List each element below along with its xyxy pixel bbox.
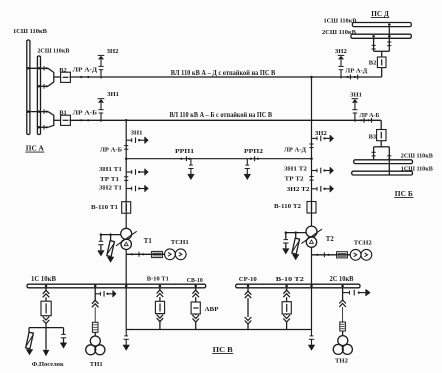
svg-text:ПС А: ПС А (26, 145, 45, 153)
svg-text:ТН1: ТН1 (90, 361, 103, 368)
svg-text:ЗН1 Т1: ЗН1 Т1 (99, 166, 122, 173)
svg-text:Т2: Т2 (326, 236, 335, 243)
svg-text:Т1: Т1 (144, 238, 153, 245)
svg-text:2С 10кВ: 2С 10кВ (330, 276, 354, 283)
svg-text:РРП2: РРП2 (244, 148, 264, 155)
svg-text:1С 10кВ: 1С 10кВ (31, 276, 56, 283)
svg-text:АВР: АВР (205, 306, 219, 313)
svg-text:ВЛ 110 кВ А – Д с отпайкой на: ВЛ 110 кВ А – Д с отпайкой на ПС В (171, 70, 276, 77)
svg-text:ЗН1: ЗН1 (107, 91, 119, 98)
svg-text:ЛР А-Б: ЛР А-Б (360, 112, 380, 119)
svg-text:СВ-10: СВ-10 (187, 277, 204, 284)
svg-text:ВЛ 110 кВ А – Б с отпайкой на: ВЛ 110 кВ А – Б с отпайкой на ПС В (170, 112, 273, 119)
svg-text:В3: В3 (369, 133, 376, 140)
svg-text:ЗН2 Т1: ЗН2 Т1 (99, 184, 122, 191)
svg-text:В-10 Т2: В-10 Т2 (276, 276, 305, 283)
svg-text:В2: В2 (59, 67, 66, 74)
svg-text:В-110 Т1: В-110 Т1 (91, 204, 118, 211)
svg-text:ТР Т1: ТР Т1 (100, 176, 119, 183)
svg-text:В1: В1 (59, 110, 66, 117)
svg-text:ЗН2 Т2: ЗН2 Т2 (287, 186, 311, 193)
svg-text:ЗН1: ЗН1 (350, 91, 362, 98)
svg-text:ТР Т2: ТР Т2 (285, 176, 305, 183)
svg-text:ПС Б: ПС Б (395, 190, 413, 198)
svg-text:ЗН2: ЗН2 (335, 48, 348, 55)
svg-text:СР-10: СР-10 (239, 276, 258, 283)
svg-text:ЛР А-Д: ЛР А-Д (284, 146, 306, 153)
svg-text:2СШ 110кВ: 2СШ 110кВ (401, 152, 434, 159)
svg-text:ТСН1: ТСН1 (171, 239, 189, 246)
svg-text:ЛР А-Б: ЛР А-Б (100, 146, 123, 153)
svg-text:ЛР А-Б: ЛР А-Б (73, 109, 98, 116)
svg-text:В2: В2 (369, 59, 376, 66)
svg-text:Ф.Поселок: Ф.Поселок (32, 361, 64, 368)
svg-text:ЗН1 Т2: ЗН1 Т2 (284, 166, 308, 173)
svg-text:ЛР А-Д: ЛР А-Д (345, 67, 368, 74)
svg-text:ПС В: ПС В (213, 346, 233, 354)
svg-text:1СШ 110кВ: 1СШ 110кВ (13, 28, 48, 35)
svg-text:В-110 Т2: В-110 Т2 (274, 203, 302, 210)
svg-text:ТСН2: ТСН2 (354, 239, 373, 246)
svg-text:ЗН2: ЗН2 (315, 130, 328, 137)
svg-text:В-10 Т1: В-10 Т1 (147, 276, 169, 283)
svg-text:1СШ 110кВ: 1СШ 110кВ (401, 165, 434, 172)
svg-text:ПС Д: ПС Д (371, 10, 389, 18)
svg-text:ЗН2: ЗН2 (107, 48, 120, 55)
svg-text:РРП1: РРП1 (175, 148, 194, 155)
svg-text:ЛР А-Д: ЛР А-Д (73, 67, 98, 74)
svg-text:2СШ 110кВ: 2СШ 110кВ (37, 48, 70, 55)
svg-text:ЗН1: ЗН1 (131, 129, 143, 136)
svg-text:ТН2: ТН2 (335, 357, 349, 364)
